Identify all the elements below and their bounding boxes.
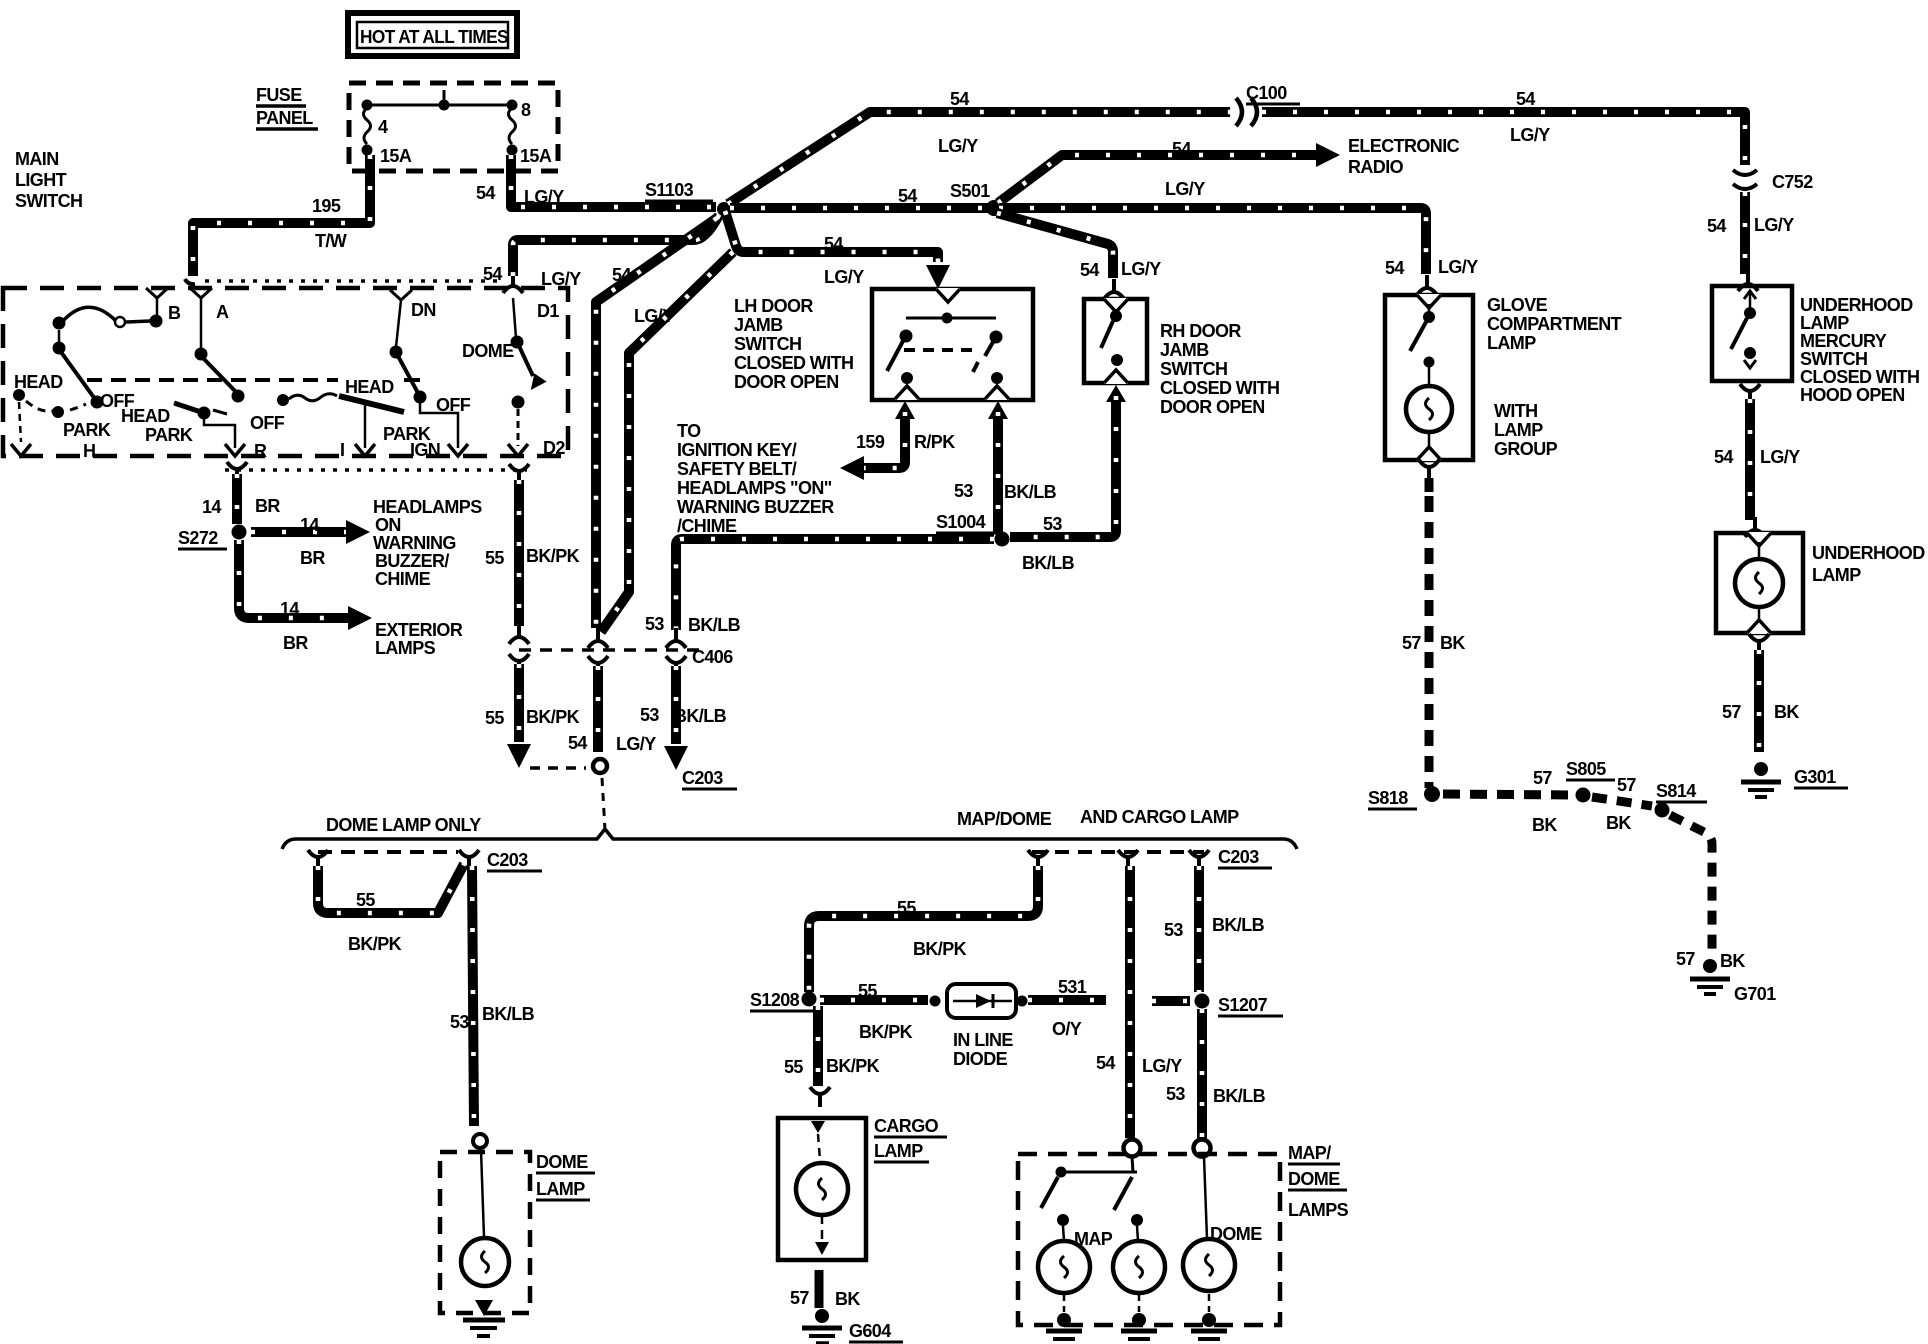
svg-text:LAMP: LAMP — [536, 1179, 585, 1199]
svg-text:57: 57 — [1402, 633, 1421, 653]
svg-text:53: 53 — [640, 705, 659, 725]
svg-text:BK/PK: BK/PK — [913, 939, 967, 959]
svg-text:531: 531 — [1058, 977, 1087, 997]
svg-text:SWITCH: SWITCH — [1160, 359, 1227, 379]
svg-text:15A: 15A — [380, 146, 412, 166]
svg-text:BK/LB: BK/LB — [674, 706, 727, 726]
svg-text:O/Y: O/Y — [1052, 1019, 1082, 1039]
svg-text:55: 55 — [784, 1057, 803, 1077]
svg-text:54: 54 — [1714, 447, 1733, 467]
svg-text:54: 54 — [1707, 216, 1726, 236]
svg-text:C406: C406 — [692, 647, 733, 667]
svg-text:C203: C203 — [1218, 847, 1259, 867]
svg-text:S272: S272 — [178, 528, 218, 548]
svg-text:LG/Y: LG/Y — [524, 187, 564, 207]
svg-text:54: 54 — [476, 183, 495, 203]
svg-text:IGN: IGN — [410, 440, 440, 460]
svg-text:S1208: S1208 — [750, 990, 800, 1010]
svg-text:54: 54 — [898, 186, 917, 206]
svg-text:54: 54 — [1385, 258, 1404, 278]
svg-text:DOME: DOME — [536, 1152, 588, 1172]
svg-text:LG/Y: LG/Y — [1510, 125, 1550, 145]
svg-text:DIODE: DIODE — [953, 1049, 1008, 1069]
svg-text:LAMP: LAMP — [1800, 313, 1849, 333]
svg-text:LH DOOR: LH DOOR — [734, 296, 813, 316]
svg-text:UNDERHOOD: UNDERHOOD — [1800, 295, 1913, 315]
svg-text:A: A — [216, 302, 229, 322]
svg-text:MAP: MAP — [1074, 1229, 1113, 1249]
svg-text:LAMP: LAMP — [1494, 420, 1543, 440]
svg-text:BK: BK — [1774, 702, 1799, 722]
svg-text:GROUP: GROUP — [1494, 439, 1558, 459]
svg-text:G701: G701 — [1734, 984, 1776, 1004]
svg-text:R/PK: R/PK — [914, 432, 955, 452]
svg-text:MAIN: MAIN — [15, 149, 59, 169]
svg-text:54: 54 — [824, 234, 843, 254]
svg-text:LIGHT: LIGHT — [15, 170, 67, 190]
svg-text:BK/LB: BK/LB — [1213, 1086, 1266, 1106]
svg-text:CLOSED WITH: CLOSED WITH — [1800, 367, 1919, 387]
svg-text:53: 53 — [1166, 1084, 1185, 1104]
svg-text:LG/Y: LG/Y — [616, 734, 656, 754]
svg-text:RADIO: RADIO — [1348, 157, 1404, 177]
svg-text:57: 57 — [790, 1288, 809, 1308]
svg-text:54: 54 — [1096, 1053, 1115, 1073]
svg-text:LG/Y: LG/Y — [938, 136, 978, 156]
svg-text:C203: C203 — [487, 850, 528, 870]
svg-text:55: 55 — [485, 548, 504, 568]
svg-text:BR: BR — [283, 633, 308, 653]
svg-text:HEAD: HEAD — [121, 406, 170, 426]
svg-text:HEADLAMPS "ON": HEADLAMPS "ON" — [677, 478, 832, 498]
svg-text:WARNING: WARNING — [373, 533, 456, 553]
svg-text:BK: BK — [1440, 633, 1465, 653]
svg-text:FUSE: FUSE — [256, 85, 302, 105]
svg-text:S1207: S1207 — [1218, 995, 1268, 1015]
svg-text:ON: ON — [375, 515, 401, 535]
svg-text:B: B — [168, 303, 181, 323]
svg-text:14: 14 — [280, 599, 299, 619]
svg-text:MAP/: MAP/ — [1288, 1143, 1331, 1163]
svg-text:OFF: OFF — [436, 395, 471, 415]
svg-text:BK: BK — [1720, 951, 1745, 971]
svg-text:HEAD: HEAD — [345, 377, 394, 397]
svg-text:HOOD OPEN: HOOD OPEN — [1800, 385, 1905, 405]
svg-text:TO: TO — [677, 421, 701, 441]
svg-text:57: 57 — [1533, 768, 1552, 788]
svg-text:57: 57 — [1676, 949, 1695, 969]
svg-text:CARGO: CARGO — [874, 1116, 939, 1136]
svg-text:57: 57 — [1722, 702, 1741, 722]
svg-text:WARNING BUZZER: WARNING BUZZER — [677, 497, 834, 517]
svg-text:DOME: DOME — [1288, 1169, 1340, 1189]
svg-text:GLOVE: GLOVE — [1487, 295, 1548, 315]
svg-text:BK: BK — [1606, 813, 1631, 833]
svg-text:HEAD: HEAD — [14, 372, 63, 392]
svg-text:LG/Y: LG/Y — [824, 267, 864, 287]
svg-text:54: 54 — [612, 265, 631, 285]
svg-text:BK/PK: BK/PK — [526, 707, 580, 727]
svg-text:IGNITION KEY/: IGNITION KEY/ — [677, 440, 797, 460]
svg-text:OFF: OFF — [250, 413, 285, 433]
svg-text:195: 195 — [312, 196, 341, 216]
svg-text:53: 53 — [450, 1012, 469, 1032]
svg-text:AND CARGO LAMP: AND CARGO LAMP — [1080, 807, 1239, 827]
svg-text:H: H — [83, 441, 95, 461]
svg-text:53: 53 — [1164, 920, 1183, 940]
svg-text:BK/PK: BK/PK — [348, 934, 402, 954]
svg-text:55: 55 — [356, 890, 375, 910]
svg-text:DOME LAMP ONLY: DOME LAMP ONLY — [326, 815, 481, 835]
svg-text:PARK: PARK — [63, 420, 111, 440]
svg-text:DOOR OPEN: DOOR OPEN — [1160, 397, 1265, 417]
svg-text:54: 54 — [950, 89, 969, 109]
svg-text:55: 55 — [858, 981, 877, 1001]
svg-text:HOT AT ALL TIMES: HOT AT ALL TIMES — [360, 27, 509, 47]
svg-text:LAMPS: LAMPS — [1288, 1200, 1349, 1220]
svg-text:S501: S501 — [950, 181, 990, 201]
svg-text:54: 54 — [1080, 260, 1099, 280]
svg-text:C100: C100 — [1246, 83, 1287, 103]
svg-text:BK/LB: BK/LB — [1004, 482, 1057, 502]
svg-text:EXTERIOR: EXTERIOR — [375, 620, 463, 640]
svg-text:BK/PK: BK/PK — [526, 546, 580, 566]
svg-text:DN: DN — [411, 300, 436, 320]
svg-text:LAMP: LAMP — [1487, 333, 1536, 353]
svg-text:53: 53 — [1043, 514, 1062, 534]
svg-text:SAFETY BELT/: SAFETY BELT/ — [677, 459, 797, 479]
svg-text:S805: S805 — [1566, 759, 1606, 779]
svg-text:BK/PK: BK/PK — [859, 1022, 913, 1042]
svg-text:JAMB: JAMB — [734, 315, 783, 335]
svg-text:57: 57 — [1617, 775, 1636, 795]
svg-text:CLOSED WITH: CLOSED WITH — [734, 353, 853, 373]
svg-text:14: 14 — [300, 515, 319, 535]
svg-text:CLOSED WITH: CLOSED WITH — [1160, 378, 1279, 398]
svg-text:IN LINE: IN LINE — [953, 1030, 1013, 1050]
svg-text:DOME: DOME — [462, 341, 514, 361]
svg-text:54: 54 — [568, 733, 587, 753]
svg-text:LAMP: LAMP — [1812, 565, 1861, 585]
svg-text:RH DOOR: RH DOOR — [1160, 321, 1241, 341]
svg-text:14: 14 — [202, 497, 221, 517]
svg-text:I: I — [340, 440, 344, 460]
svg-text:53: 53 — [645, 614, 664, 634]
svg-text:DOOR OPEN: DOOR OPEN — [734, 372, 839, 392]
svg-text:HEADLAMPS: HEADLAMPS — [373, 497, 482, 517]
svg-text:MERCURY: MERCURY — [1800, 331, 1887, 351]
svg-text:C752: C752 — [1772, 172, 1813, 192]
svg-text:LAMP: LAMP — [874, 1141, 923, 1161]
svg-text:LAMPS: LAMPS — [375, 638, 436, 658]
svg-text:LG/Y: LG/Y — [1754, 215, 1794, 235]
svg-text:54: 54 — [483, 264, 502, 284]
svg-text:LG/Y: LG/Y — [541, 269, 581, 289]
svg-text:SWITCH: SWITCH — [734, 334, 801, 354]
svg-text:LG/Y: LG/Y — [1438, 257, 1478, 277]
svg-text:BR: BR — [255, 496, 280, 516]
svg-text:BK: BK — [835, 1289, 860, 1309]
svg-text:BR: BR — [300, 548, 325, 568]
svg-text:PARK: PARK — [145, 425, 193, 445]
svg-text:MAP/DOME: MAP/DOME — [957, 809, 1052, 829]
svg-text:LG/Y: LG/Y — [1165, 179, 1205, 199]
svg-text:SWITCH: SWITCH — [15, 191, 82, 211]
svg-text:D1: D1 — [537, 301, 559, 321]
svg-text:T/W: T/W — [315, 231, 347, 251]
svg-text:PANEL: PANEL — [256, 108, 313, 128]
svg-text:D2: D2 — [543, 438, 565, 458]
svg-text:/CHIME: /CHIME — [677, 516, 737, 536]
svg-text:159: 159 — [856, 432, 885, 452]
svg-text:BK/LB: BK/LB — [688, 615, 741, 635]
svg-text:55: 55 — [485, 708, 504, 728]
svg-text:54: 54 — [1172, 139, 1191, 159]
svg-text:COMPARTMENT: COMPARTMENT — [1487, 314, 1622, 334]
svg-text:DOME: DOME — [1210, 1224, 1262, 1244]
svg-text:ELECTRONIC: ELECTRONIC — [1348, 136, 1460, 156]
svg-text:53: 53 — [954, 481, 973, 501]
svg-text:S1004: S1004 — [936, 512, 986, 532]
svg-text:R: R — [254, 441, 267, 461]
svg-text:LG/Y: LG/Y — [1142, 1056, 1182, 1076]
svg-text:55: 55 — [897, 898, 916, 918]
svg-text:BK/LB: BK/LB — [482, 1004, 535, 1024]
svg-text:CHIME: CHIME — [375, 569, 431, 589]
svg-text:54: 54 — [1516, 89, 1535, 109]
svg-text:C203: C203 — [682, 768, 723, 788]
svg-text:8: 8 — [521, 100, 531, 120]
svg-text:LG/Y: LG/Y — [1760, 447, 1800, 467]
svg-text:BK: BK — [1532, 815, 1557, 835]
svg-text:LG/Y: LG/Y — [1121, 259, 1161, 279]
svg-text:S818: S818 — [1368, 788, 1408, 808]
svg-text:S814: S814 — [1656, 781, 1696, 801]
svg-text:G301: G301 — [1794, 767, 1836, 787]
svg-text:UNDERHOOD: UNDERHOOD — [1812, 543, 1925, 563]
svg-text:BK/PK: BK/PK — [826, 1056, 880, 1076]
svg-text:G604: G604 — [849, 1321, 891, 1341]
svg-text:WITH: WITH — [1494, 401, 1538, 421]
svg-text:S1103: S1103 — [645, 180, 694, 200]
svg-text:4: 4 — [378, 117, 388, 137]
svg-text:BK/LB: BK/LB — [1022, 553, 1075, 573]
svg-text:JAMB: JAMB — [1160, 340, 1209, 360]
svg-text:BK/LB: BK/LB — [1212, 915, 1265, 935]
svg-text:SWITCH: SWITCH — [1800, 349, 1867, 369]
svg-text:BUZZER/: BUZZER/ — [375, 551, 449, 571]
svg-text:15A: 15A — [520, 146, 552, 166]
